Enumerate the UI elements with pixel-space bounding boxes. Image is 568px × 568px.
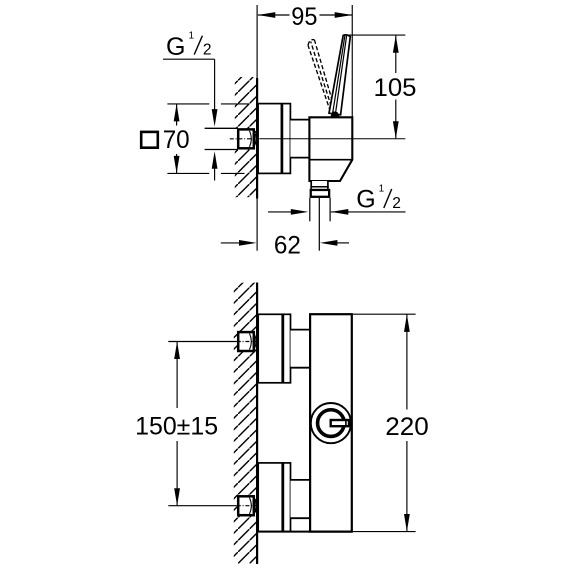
outlet neck: [310, 181, 328, 189]
dimension 150 extension lines: [168, 342, 237, 506]
dimension square 70 extension lines: [167, 104, 249, 173]
lever knob middle circle: [316, 409, 345, 438]
wall face line (top view): [256, 5, 258, 251]
dashed lever (alternate position): [308, 40, 336, 114]
dimension 220: [385, 314, 429, 531]
G1/2 wall union fitting (top view): [238, 129, 256, 148]
dimension square 70: [163, 104, 190, 173]
solid lever: [329, 35, 350, 115]
escutcheon flange (top view): [258, 104, 290, 174]
supply stub pipe behind wall: [205, 128, 238, 149]
leader arrows for G1/2 top: [212, 59, 218, 180]
centerline through flange and body: [259, 138, 405, 140]
lower fitting centerline: [237, 505, 259, 507]
mixer body (front view): [310, 314, 352, 531]
dimension 62: [221, 232, 349, 260]
svg-text:G: G: [356, 186, 375, 214]
square symbol: [141, 132, 158, 148]
label G 1/2 top left: [163, 31, 215, 62]
dimension 95 extension line right: [351, 5, 353, 117]
dimension 95: [258, 3, 352, 31]
lever knob tab: [331, 420, 349, 426]
centerline dash-dot through fitting: [230, 138, 259, 140]
lower connector stub: [291, 480, 311, 518]
svg-text:150±15: 150±15: [135, 413, 218, 441]
upper connector stub: [291, 330, 311, 368]
lever knob inner circle: [318, 410, 344, 436]
upper G1/2 union fitting: [238, 332, 256, 351]
svg-text:95: 95: [291, 3, 317, 31]
upper escutcheon: [258, 314, 290, 383]
label G 1/2 bottom right: [356, 184, 401, 214]
upper fitting centerline: [237, 341, 259, 343]
outlet collar ring: [311, 190, 329, 197]
lower escutcheon: [258, 463, 290, 532]
dimension 220 extension lines: [258, 314, 415, 531]
outlet pipe below collar: [310, 198, 330, 251]
svg-text:105: 105: [374, 74, 417, 102]
svg-text:62: 62: [274, 232, 301, 260]
wall hatching (bottom view): [234, 283, 256, 564]
svg-text:1: 1: [379, 184, 385, 195]
wall face line (bottom view): [256, 283, 258, 565]
connector stub flange to body: [290, 120, 309, 158]
mixer body (top view): [309, 117, 352, 181]
leader arrows for G1/2 bottom: [268, 209, 406, 215]
wall hatching (top view): [235, 77, 256, 197]
lever knob outer circle: [311, 403, 351, 443]
svg-text:1: 1: [189, 31, 195, 42]
lever pivot boss: [330, 111, 340, 117]
dimension 150±15: [135, 342, 218, 506]
svg-text:G: G: [166, 33, 185, 61]
svg-text:220: 220: [385, 413, 429, 441]
dimension 105: [347, 35, 417, 139]
svg-text:2: 2: [392, 195, 401, 212]
svg-text:70: 70: [163, 126, 190, 154]
svg-text:2: 2: [203, 42, 212, 59]
lower G1/2 union fitting: [238, 496, 256, 515]
